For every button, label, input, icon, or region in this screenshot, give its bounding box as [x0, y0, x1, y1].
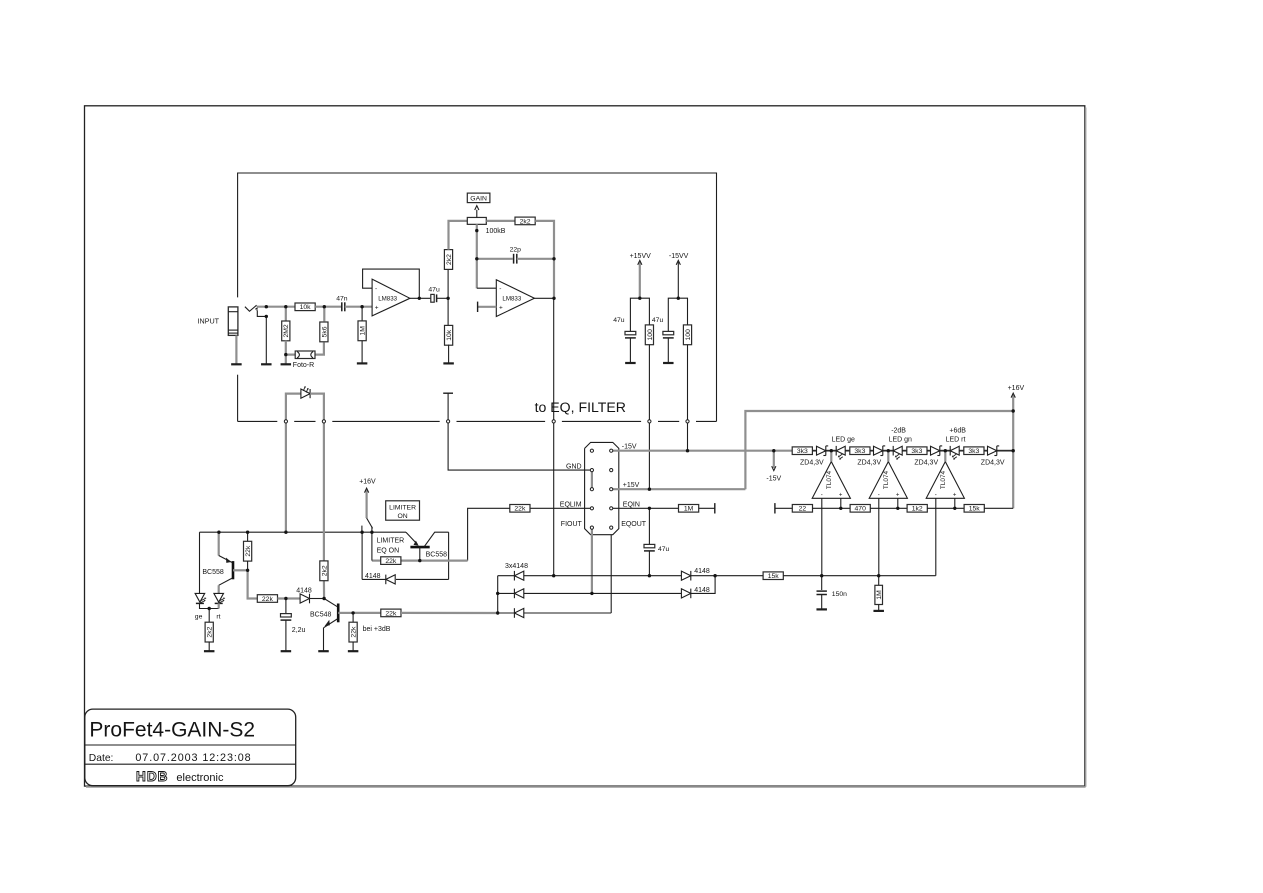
- resistor 22k from bus: [247, 532, 249, 541]
- wire to 3k3 d: [959, 450, 964, 452]
- svg-text:4148: 4148: [694, 568, 710, 575]
- svg-text:47u: 47u: [652, 317, 664, 324]
- svg-text:electronic: electronic: [176, 772, 224, 784]
- wire TL074 3 input to chain node: [944, 451, 946, 462]
- wire opto loop to pin 2: [310, 394, 324, 422]
- wire +15V row from connector: [611, 488, 745, 490]
- resistor 22k bei +3dB: [381, 609, 401, 617]
- svg-text:+: +: [953, 492, 957, 498]
- connector EQ header outline: [585, 442, 619, 534]
- resistor 2M2: [282, 321, 290, 341]
- wire FIOUT down: [591, 528, 593, 594]
- resistor 100 -rail: [683, 325, 691, 345]
- title block frame: [85, 709, 296, 786]
- svg-text:+: +: [375, 305, 379, 312]
- resistor 2k2 BC548 base: [320, 561, 328, 581]
- wire gain row to 2k2: [486, 220, 515, 222]
- zener ZD4,3V c: [927, 450, 931, 452]
- power flag -15V: [773, 451, 775, 468]
- capacitor 150n: [821, 576, 823, 590]
- wire main limiter bus: [200, 531, 372, 533]
- svg-text:+: +: [896, 492, 900, 498]
- wire base node down to 22k: [248, 570, 258, 598]
- ground jack: [231, 363, 242, 365]
- wire 4148 up to bus: [361, 532, 363, 579]
- wire 2M2 to Foto-R: [286, 341, 295, 355]
- ground 47u +rail: [625, 362, 636, 364]
- op-amp U2c TL074: [926, 462, 964, 499]
- capacitor 22p: [513, 254, 515, 264]
- transistor Q1 base wire: [233, 569, 248, 571]
- resistor 3k3 b: [850, 447, 870, 455]
- svg-text:LED gn: LED gn: [889, 437, 912, 444]
- resistor 22 row: [792, 505, 812, 513]
- svg-text:TL074: TL074: [940, 470, 947, 489]
- wire row3 right up to EQOUT: [524, 612, 611, 614]
- wire 22k to diode node: [278, 597, 301, 599]
- LED ge chain: [835, 446, 837, 456]
- ground Foto-R divider: [281, 363, 292, 365]
- wire -15VV branches: [668, 298, 687, 331]
- transistor Q3 collector: [338, 612, 353, 614]
- diode 4148 base: [300, 594, 309, 603]
- svg-text:-: -: [821, 492, 823, 498]
- wire op2 output to row1: [553, 421, 555, 575]
- svg-text:47u: 47u: [658, 546, 670, 553]
- node LED rt drive: [940, 450, 950, 452]
- wire op2 output: [534, 297, 554, 299]
- diode D5 4148 right row2: [681, 589, 690, 598]
- svg-text:2k2: 2k2: [207, 626, 214, 637]
- svg-text:1M: 1M: [360, 326, 367, 336]
- wire 1M to terminator: [699, 507, 715, 509]
- wire limiter 22k row: [372, 559, 381, 561]
- svg-text:3x4148: 3x4148: [505, 563, 528, 570]
- wire limiter top row: [372, 531, 406, 533]
- input jack connector J1: [228, 307, 238, 336]
- svg-text:GND: GND: [566, 464, 582, 471]
- potentiometer 100kB: [467, 217, 486, 224]
- svg-text:ON: ON: [397, 513, 407, 520]
- svg-text:2M2: 2M2: [283, 324, 290, 337]
- wire switch contact to ground: [257, 310, 266, 316]
- svg-text:15k: 15k: [768, 573, 780, 580]
- op-amp U2b TL074: [869, 462, 907, 499]
- svg-text:ge: ge: [195, 614, 203, 621]
- svg-text:1k2: 1k2: [912, 506, 923, 513]
- resistor 2k2 vertical: [444, 250, 452, 270]
- wire 47n to op-amp: [345, 306, 372, 308]
- svg-text:LED rt: LED rt: [946, 437, 966, 444]
- diode D3 4148 row3: [498, 612, 515, 614]
- wire EQOUT down: [610, 535, 612, 613]
- wire 22 to 470: [813, 507, 851, 509]
- svg-text:HDB: HDB: [136, 769, 168, 784]
- wire opto loop inside box: [286, 394, 301, 422]
- junction dots and pin circles: [265, 315, 268, 318]
- photo resistor Foto-R: [295, 351, 315, 359]
- wire TL074 3 plus leg: [954, 498, 956, 508]
- svg-text:LM833: LM833: [378, 295, 397, 302]
- wire LED chain rail: [774, 450, 1013, 452]
- LED rt chain: [949, 446, 951, 456]
- wire 22p to output node: [517, 258, 554, 260]
- node LED ge drive: [826, 450, 836, 452]
- wire EQIN row: [611, 507, 678, 509]
- inner dashed box around input/gain stage: [238, 173, 717, 421]
- wire pin 2 down to 2k2: [323, 421, 325, 561]
- wire TL074 1 minus leg: [821, 498, 823, 575]
- wire 100 to -15V rail: [687, 345, 689, 451]
- wire jack sleeve to ground: [235, 335, 237, 364]
- label box GAIN: [467, 193, 490, 203]
- svg-text:rt: rt: [216, 614, 220, 621]
- ground switch contact: [261, 363, 272, 365]
- svg-text:EQ ON: EQ ON: [377, 547, 400, 554]
- resistor 15k ladder: [763, 572, 783, 580]
- svg-text:LIMITER: LIMITER: [377, 537, 405, 544]
- svg-text:22k: 22k: [351, 626, 358, 638]
- svg-text:47u: 47u: [428, 286, 440, 293]
- wire 2k2 to output column: [535, 221, 554, 298]
- svg-text:BC558: BC558: [202, 569, 224, 576]
- label box LIMITER ON: [386, 501, 420, 520]
- resistor 10k input: [295, 303, 315, 311]
- svg-text:470: 470: [855, 506, 867, 513]
- svg-text:-: -: [935, 492, 937, 498]
- svg-text:22k: 22k: [245, 545, 252, 557]
- resistor 1k2 row: [907, 505, 927, 513]
- svg-text:10k: 10k: [300, 304, 312, 311]
- wire 2k2 top to gain row: [449, 221, 468, 250]
- jack switch contact: [245, 305, 257, 311]
- wire down to 10k: [447, 298, 449, 326]
- transistor Q3 BC548 base lead: [324, 599, 337, 607]
- resistor 22k emitter: [349, 622, 357, 642]
- wire +16V rail down: [1012, 411, 1014, 508]
- ground BC548: [318, 650, 329, 652]
- transistor Q3 base bar: [337, 604, 340, 623]
- wire LEDs to 2k2: [200, 603, 219, 608]
- resistor 22k limiter: [381, 557, 401, 565]
- resistor 2k2 feedback: [515, 217, 535, 225]
- wire 15k to +16V rail: [984, 507, 1013, 509]
- svg-text:10k: 10k: [446, 329, 453, 341]
- resistor 15k row: [964, 505, 984, 513]
- resistor 5k6: [320, 322, 328, 342]
- wire pot wiper down: [476, 224, 478, 288]
- wire 15k to op-amp minus rails: [783, 575, 935, 577]
- wire +15V up and right to +16V node: [745, 411, 1013, 489]
- svg-text:TL074: TL074: [826, 470, 833, 489]
- transistor Q1 base bar: [232, 561, 235, 579]
- wire GND stub with terminator: [447, 393, 449, 421]
- svg-text:-15VV: -15VV: [669, 253, 689, 260]
- ground 47u -rail: [663, 362, 674, 364]
- wire feedback row with terminator: [775, 507, 793, 509]
- svg-text:FIOUT: FIOUT: [561, 521, 583, 528]
- svg-text:22k: 22k: [385, 610, 397, 617]
- svg-text:15k: 15k: [969, 506, 981, 513]
- svg-text:22k: 22k: [385, 558, 397, 565]
- wire to 3k3 b: [845, 450, 850, 452]
- transistor Q1 BC558 emitter: [218, 532, 220, 555]
- resistor 22k EQLIM: [510, 505, 530, 513]
- svg-text:2k2: 2k2: [446, 254, 453, 265]
- wire 100 to pin: [648, 345, 650, 490]
- ground 2.2u: [281, 650, 292, 652]
- wire EQLIM to limiter: [468, 508, 510, 560]
- wire to 22k bei: [353, 612, 381, 614]
- svg-text:100kB: 100kB: [486, 228, 506, 235]
- wire to ground below 2M2: [285, 355, 287, 365]
- svg-text:2k2: 2k2: [321, 565, 328, 576]
- wire EQLIM row: [530, 507, 592, 509]
- ground 10k: [443, 362, 454, 364]
- svg-text:2k2: 2k2: [520, 218, 531, 225]
- wire 4148 to base node: [310, 598, 325, 600]
- svg-text:BC558: BC558: [426, 551, 448, 558]
- resistor 10k vertical: [445, 325, 453, 345]
- capacitor 47n: [341, 302, 343, 311]
- svg-text:+6dB: +6dB: [949, 428, 966, 435]
- svg-text:1M: 1M: [684, 506, 694, 513]
- svg-text:2,2u: 2,2u: [292, 627, 306, 634]
- svg-text:Date:: Date:: [89, 753, 114, 764]
- svg-text:LIMITER: LIMITER: [389, 504, 416, 511]
- wire Q2 base down: [419, 547, 421, 561]
- svg-text:ZD4,3V: ZD4,3V: [981, 460, 1005, 467]
- wire 2k2 to base node: [323, 581, 325, 599]
- diode 4148 limiter: [396, 578, 449, 580]
- svg-text:LM833: LM833: [502, 295, 521, 302]
- svg-text:ZD4,3V: ZD4,3V: [800, 460, 824, 467]
- svg-text:3k3: 3k3: [968, 448, 979, 455]
- resistor 100 +rail: [645, 325, 653, 345]
- wire TL074 3 minus leg: [935, 498, 937, 575]
- svg-text:22k: 22k: [262, 596, 274, 603]
- op-amp U1B LM833: [496, 280, 534, 317]
- wire 22p row: [477, 258, 513, 260]
- svg-text:22: 22: [799, 506, 807, 513]
- svg-text:-15V: -15V: [766, 476, 781, 483]
- svg-text:+16V: +16V: [359, 479, 376, 486]
- wire TL074 1 input to chain node: [830, 451, 832, 462]
- wire 5k6 to Foto-R: [315, 343, 324, 355]
- wire collector node down to 22k: [352, 613, 354, 623]
- svg-text:-: -: [499, 286, 501, 293]
- ground 150n: [816, 608, 827, 610]
- wire TL074 2 minus leg: [878, 498, 880, 575]
- svg-text:ProFet4-GAIN-S2: ProFet4-GAIN-S2: [89, 718, 255, 741]
- wire EQIN down through 47u: [648, 508, 650, 544]
- svg-text:-15V: -15V: [622, 444, 637, 451]
- zener ZD4,3V d: [984, 450, 988, 452]
- connector internal link GND to +15V pin: [591, 470, 593, 489]
- capacitor 47u output: [431, 294, 434, 302]
- diode D4 4148 right row1: [681, 571, 690, 580]
- wire row2 right: [524, 592, 682, 594]
- svg-text:47u: 47u: [613, 317, 625, 324]
- svg-text:+: +: [839, 492, 843, 498]
- transistor Q2 base bar: [410, 546, 429, 549]
- wire to 3k3 c: [902, 450, 907, 452]
- resistor 2k2 LED: [205, 622, 213, 642]
- capacitor 47u +rail: [625, 331, 636, 334]
- svg-text:3k3: 3k3: [797, 448, 808, 455]
- svg-text:INPUT: INPUT: [198, 317, 220, 326]
- node LED gn drive: [883, 450, 893, 452]
- wire op2 plus stub with terminator: [478, 306, 497, 308]
- svg-text:-: -: [878, 492, 880, 498]
- zener ZD4,3V a: [812, 450, 816, 452]
- page border frame: [85, 106, 1085, 786]
- wire op2 output down to EQ: [553, 298, 555, 421]
- ground 1M: [357, 362, 368, 364]
- wire -15V row from connector: [611, 450, 774, 452]
- svg-text:-2dB: -2dB: [891, 428, 906, 435]
- resistor 22k to BC548: [257, 595, 277, 603]
- wire Q2 collector down to 4148: [448, 532, 450, 579]
- wire TL074 2 plus leg: [897, 498, 899, 508]
- resistor 3k3 a: [792, 447, 812, 455]
- svg-text:100: 100: [685, 329, 692, 341]
- svg-text:EQIN: EQIN: [623, 502, 640, 509]
- wire up to 2k2: [447, 270, 449, 299]
- wire diode ladder left rail: [497, 576, 499, 613]
- svg-text:4148: 4148: [296, 587, 312, 594]
- wire 5k6 branch: [323, 307, 325, 322]
- svg-text:EQLIM: EQLIM: [560, 502, 582, 509]
- resistor 1M: [358, 321, 366, 341]
- op-amp U1A LM833: [372, 279, 410, 316]
- transistor Q2 collector: [424, 532, 448, 546]
- wire 1k2 to 15k: [927, 507, 964, 509]
- switch contact ticks: [361, 526, 363, 532]
- wire row1 right: [524, 575, 682, 577]
- wire bus to 22k limiter: [371, 532, 373, 560]
- svg-text:4148: 4148: [365, 573, 381, 580]
- wire opto loop pin 1 down to bus: [285, 421, 287, 532]
- svg-text:1M: 1M: [876, 590, 883, 600]
- diode D1 4148 row1: [498, 575, 515, 577]
- svg-text:3k3: 3k3: [854, 448, 865, 455]
- wire 47u to 2k2/10k node: [437, 297, 449, 299]
- svg-text:150n: 150n: [832, 591, 847, 598]
- svg-text:EQOUT: EQOUT: [621, 521, 647, 528]
- svg-text:+16V: +16V: [1008, 385, 1025, 392]
- svg-text:22k: 22k: [514, 506, 526, 513]
- resistor 1M EQIN: [679, 505, 699, 513]
- resistor 3k3 c: [907, 447, 927, 455]
- wire GND to connector: [448, 421, 592, 470]
- capacitor 47u EQIN: [644, 544, 655, 547]
- ground 22k: [348, 650, 359, 652]
- resistor 470 row: [850, 505, 870, 513]
- wire input node: [257, 306, 296, 308]
- resistor 1M meter: [878, 576, 880, 586]
- wire 10k to 47n: [315, 306, 341, 308]
- svg-text:07.07.2003 12:23:08: 07.07.2003 12:23:08: [135, 752, 251, 764]
- svg-text:3k3: 3k3: [911, 448, 922, 455]
- transistor Q3 emitter: [324, 619, 338, 628]
- svg-text:5k6: 5k6: [321, 326, 328, 337]
- svg-text:ZD4,3V: ZD4,3V: [914, 460, 938, 467]
- wire +15VV branches: [630, 298, 649, 331]
- wire 2M2 branch: [285, 307, 287, 321]
- wire op1 feedback loop: [363, 269, 420, 298]
- wire row1 to 15k: [691, 575, 763, 577]
- LED gn chain: [892, 446, 894, 456]
- svg-text:100: 100: [647, 329, 654, 341]
- wire TL074 1 plus leg: [840, 498, 842, 508]
- svg-text:+15VV: +15VV: [630, 253, 652, 260]
- svg-text:+: +: [499, 305, 503, 312]
- LED opto receiver: [301, 389, 310, 398]
- wire 1M lead: [361, 307, 363, 321]
- resistor 3k3 d: [964, 447, 984, 455]
- wire bus left end down to LED ge: [199, 532, 201, 593]
- wire 2.2u branch: [285, 599, 287, 614]
- LED rt: [214, 593, 224, 602]
- wire 470 to 1k2: [870, 507, 907, 509]
- diode D2 4148 row2: [498, 592, 515, 594]
- capacitor 47u -rail: [663, 331, 674, 334]
- ground 1M meter: [873, 610, 884, 612]
- ground 2k2 LED: [204, 650, 215, 652]
- transistor Q2 BC558 emitter: [406, 532, 417, 544]
- wire op2 minus input: [477, 287, 497, 289]
- svg-text:TL074: TL074: [883, 470, 890, 489]
- svg-text:47n: 47n: [336, 296, 348, 303]
- zener ZD4,3V b: [870, 450, 874, 452]
- wire chain to +16V rail: [997, 450, 1013, 452]
- svg-text:GAIN: GAIN: [470, 196, 487, 203]
- svg-text:LED ge: LED ge: [832, 437, 855, 444]
- wire 22k bei to diode row 3: [401, 612, 496, 614]
- switch lever: [367, 518, 373, 528]
- capacitor 2.2u: [281, 614, 292, 617]
- svg-text:Foto-R: Foto-R: [293, 362, 314, 369]
- svg-text:bei +3dB: bei +3dB: [363, 626, 391, 633]
- svg-text:22p: 22p: [510, 247, 522, 254]
- op-amp U2a TL074: [812, 462, 850, 499]
- svg-text:BC548: BC548: [310, 611, 332, 618]
- svg-text:ZD4,3V: ZD4,3V: [857, 460, 881, 467]
- LED ge: [195, 593, 205, 602]
- svg-text:-: -: [375, 286, 377, 293]
- svg-text:to EQ, FILTER: to EQ, FILTER: [535, 399, 626, 415]
- wire TL074 2 input to chain node: [887, 451, 889, 462]
- transistor Q1 collector: [219, 578, 233, 585]
- wire op1 output: [410, 297, 431, 299]
- wire row2 joins row1: [691, 576, 715, 594]
